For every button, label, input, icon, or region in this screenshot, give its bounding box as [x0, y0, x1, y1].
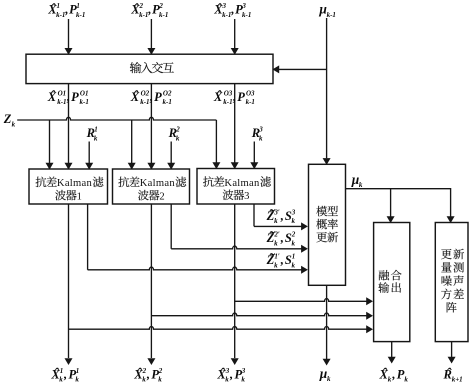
svg-text:k-1: k-1 — [76, 11, 85, 19]
svg-text:k: k — [292, 239, 296, 247]
svg-text:P: P — [237, 90, 245, 104]
op-amp: robust Kalman filter 1 box (抗差Kalman滤波器1) — [29, 169, 108, 204]
svg-text:k: k — [241, 375, 245, 383]
wire: filter 3 innovation Z3,S3 into model probability update — [253, 204, 255, 226]
svg-text:O3: O3 — [246, 89, 255, 97]
svg-text:2: 2 — [139, 2, 144, 10]
box: update measurement noise covariance matrix (更新量测噪声方差阵) — [435, 223, 468, 342]
wire: filter 1 innovation Z1,S1 into model probability update — [87, 204, 89, 270]
svg-text:2′: 2′ — [273, 231, 280, 239]
box: input interaction (输入交互) — [26, 54, 273, 83]
svg-text:,: , — [64, 3, 68, 17]
box: robust Kalman filter 3 (抗差Kalman滤波器3) — [197, 169, 275, 205]
svg-text:Z: Z — [3, 112, 12, 126]
svg-text:k-1: k-1 — [242, 11, 251, 19]
svg-text:O3: O3 — [224, 89, 233, 97]
svg-text:k: k — [359, 181, 363, 189]
svg-text:k: k — [292, 261, 296, 269]
svg-text:O1: O1 — [80, 89, 89, 97]
svg-text:k-1: k-1 — [57, 98, 66, 106]
box: model probability update (模型概率更新) — [309, 164, 346, 285]
svg-text:3: 3 — [291, 208, 296, 216]
svg-text:,: , — [280, 231, 284, 245]
svg-text:1: 1 — [57, 2, 61, 10]
svg-text:,: , — [280, 209, 284, 223]
wire: filter 3 state output down to bottom label — [234, 204, 236, 358]
svg-text:k: k — [274, 239, 278, 247]
svg-text:k-1: k-1 — [246, 98, 255, 106]
svg-text:k: k — [158, 375, 162, 383]
svg-text:3: 3 — [241, 2, 246, 10]
svg-text:3: 3 — [225, 367, 230, 375]
svg-text:k: k — [59, 375, 63, 383]
svg-text:k: k — [404, 375, 408, 383]
wire: Zk measurement line with hops, corner down into filter 3 — [17, 117, 216, 120]
wire: filter 2 state branch into fusion output box — [151, 313, 367, 316]
svg-text:,: , — [63, 367, 67, 381]
svg-text:k: k — [176, 134, 180, 142]
svg-text:P: P — [154, 90, 162, 104]
svg-text:O2: O2 — [163, 89, 172, 97]
svg-text:3: 3 — [244, 191, 249, 202]
svg-text:1′: 1′ — [274, 253, 280, 261]
svg-text:k: k — [388, 375, 392, 383]
wire: fused state output arrow — [391, 342, 393, 357]
svg-text:k: k — [327, 375, 331, 383]
svg-text:Kalman: Kalman — [224, 178, 260, 189]
svg-text:1: 1 — [77, 191, 82, 202]
wire: input estimate 2 arrow into interaction box — [150, 19, 152, 48]
svg-text:2: 2 — [158, 2, 163, 10]
wire: filter 2 state output down to bottom label — [150, 204, 152, 358]
svg-text:k: k — [259, 134, 263, 142]
node: interaction box output line 3 — [234, 84, 236, 163]
svg-text:P: P — [71, 90, 79, 104]
svg-text:1: 1 — [60, 367, 64, 375]
svg-text:Kalman: Kalman — [57, 178, 93, 189]
svg-text:k-1: k-1 — [163, 98, 172, 106]
svg-text:,: , — [280, 253, 284, 267]
svg-text:O2: O2 — [141, 89, 150, 97]
svg-text:,: , — [230, 3, 234, 17]
svg-text:k: k — [274, 217, 278, 225]
svg-text:k: k — [94, 134, 98, 142]
svg-text:2: 2 — [159, 191, 164, 202]
svg-text:k: k — [225, 375, 229, 383]
wire: mu(k) output from model box to fusion box and update box — [346, 189, 451, 217]
wire: R2 arrow into filter 2 — [170, 142, 172, 164]
svg-text:2: 2 — [142, 367, 147, 375]
wire: Zk branch into filter 2 — [131, 120, 133, 163]
svg-text:,: , — [232, 90, 236, 104]
svg-text:Kalman: Kalman — [140, 178, 176, 189]
svg-text:1: 1 — [292, 253, 296, 261]
svg-text:k-1: k-1 — [223, 98, 232, 106]
svg-text:k-1: k-1 — [80, 98, 89, 106]
wire: mu(k) down from model box bottom to label — [326, 285, 328, 359]
wire: filter 3 state branch into fusion output box — [235, 299, 368, 302]
svg-text:1: 1 — [76, 367, 80, 375]
svg-text:O1: O1 — [58, 89, 67, 97]
svg-text:k-1: k-1 — [159, 11, 168, 19]
svg-text:k: k — [75, 375, 79, 383]
svg-text:k-1: k-1 — [139, 11, 148, 19]
node: interaction box output line 1 — [68, 84, 70, 163]
wire: filter 2 innovation Z2,S2 into model probability update — [170, 204, 172, 249]
svg-text:k: k — [274, 261, 278, 269]
wire: R1 arrow into filter 1 — [88, 142, 90, 164]
svg-text:3: 3 — [222, 2, 227, 10]
svg-text:k-1: k-1 — [140, 98, 149, 106]
svg-text:1: 1 — [94, 126, 98, 134]
svg-text:3′: 3′ — [273, 208, 280, 216]
svg-text:,: , — [391, 367, 395, 381]
svg-text:3: 3 — [241, 367, 246, 375]
wire: Zk branch into filter 1 — [49, 120, 51, 163]
wire: input estimate 3 arrow into interaction box — [234, 19, 236, 48]
svg-text:3: 3 — [258, 126, 263, 134]
svg-text:k-1: k-1 — [327, 11, 336, 19]
svg-text:,: , — [229, 367, 233, 381]
wire: mu(k-1) branch arrow into right side of interaction box — [279, 68, 327, 70]
svg-text:k: k — [12, 120, 16, 128]
svg-text:k+1: k+1 — [452, 375, 463, 383]
node: interaction box output line 2 — [150, 84, 152, 163]
svg-text:2: 2 — [158, 367, 163, 375]
svg-text:,: , — [147, 3, 151, 17]
svg-text:k-1: k-1 — [56, 11, 65, 19]
svg-text:1: 1 — [76, 2, 80, 10]
wire: mu(k) branch down into fusion output box — [390, 189, 392, 217]
wire: input estimate 1 arrow into interaction box — [68, 19, 70, 48]
svg-text:2: 2 — [291, 231, 296, 239]
svg-text:k-1: k-1 — [222, 11, 231, 19]
wire: filter 1 state output down to bottom label — [68, 204, 70, 358]
wire: mu(k-1) vertical line down to model probability update box — [326, 18, 328, 158]
svg-text:,: , — [149, 90, 153, 104]
svg-text:,: , — [66, 90, 70, 104]
box: fusion output (融合输出) — [374, 223, 410, 342]
svg-text:k: k — [292, 217, 296, 225]
box: robust Kalman filter 2 (抗差Kalman滤波器2) — [113, 169, 190, 204]
wire: updated measurement noise matrix output arrow — [451, 342, 453, 357]
wire: R3 arrow into filter 3 — [253, 142, 255, 163]
wire: filter 1 state branch into fusion output box — [69, 327, 368, 330]
svg-text:k: k — [142, 375, 146, 383]
svg-text:,: , — [146, 367, 150, 381]
svg-text:2: 2 — [175, 126, 180, 134]
